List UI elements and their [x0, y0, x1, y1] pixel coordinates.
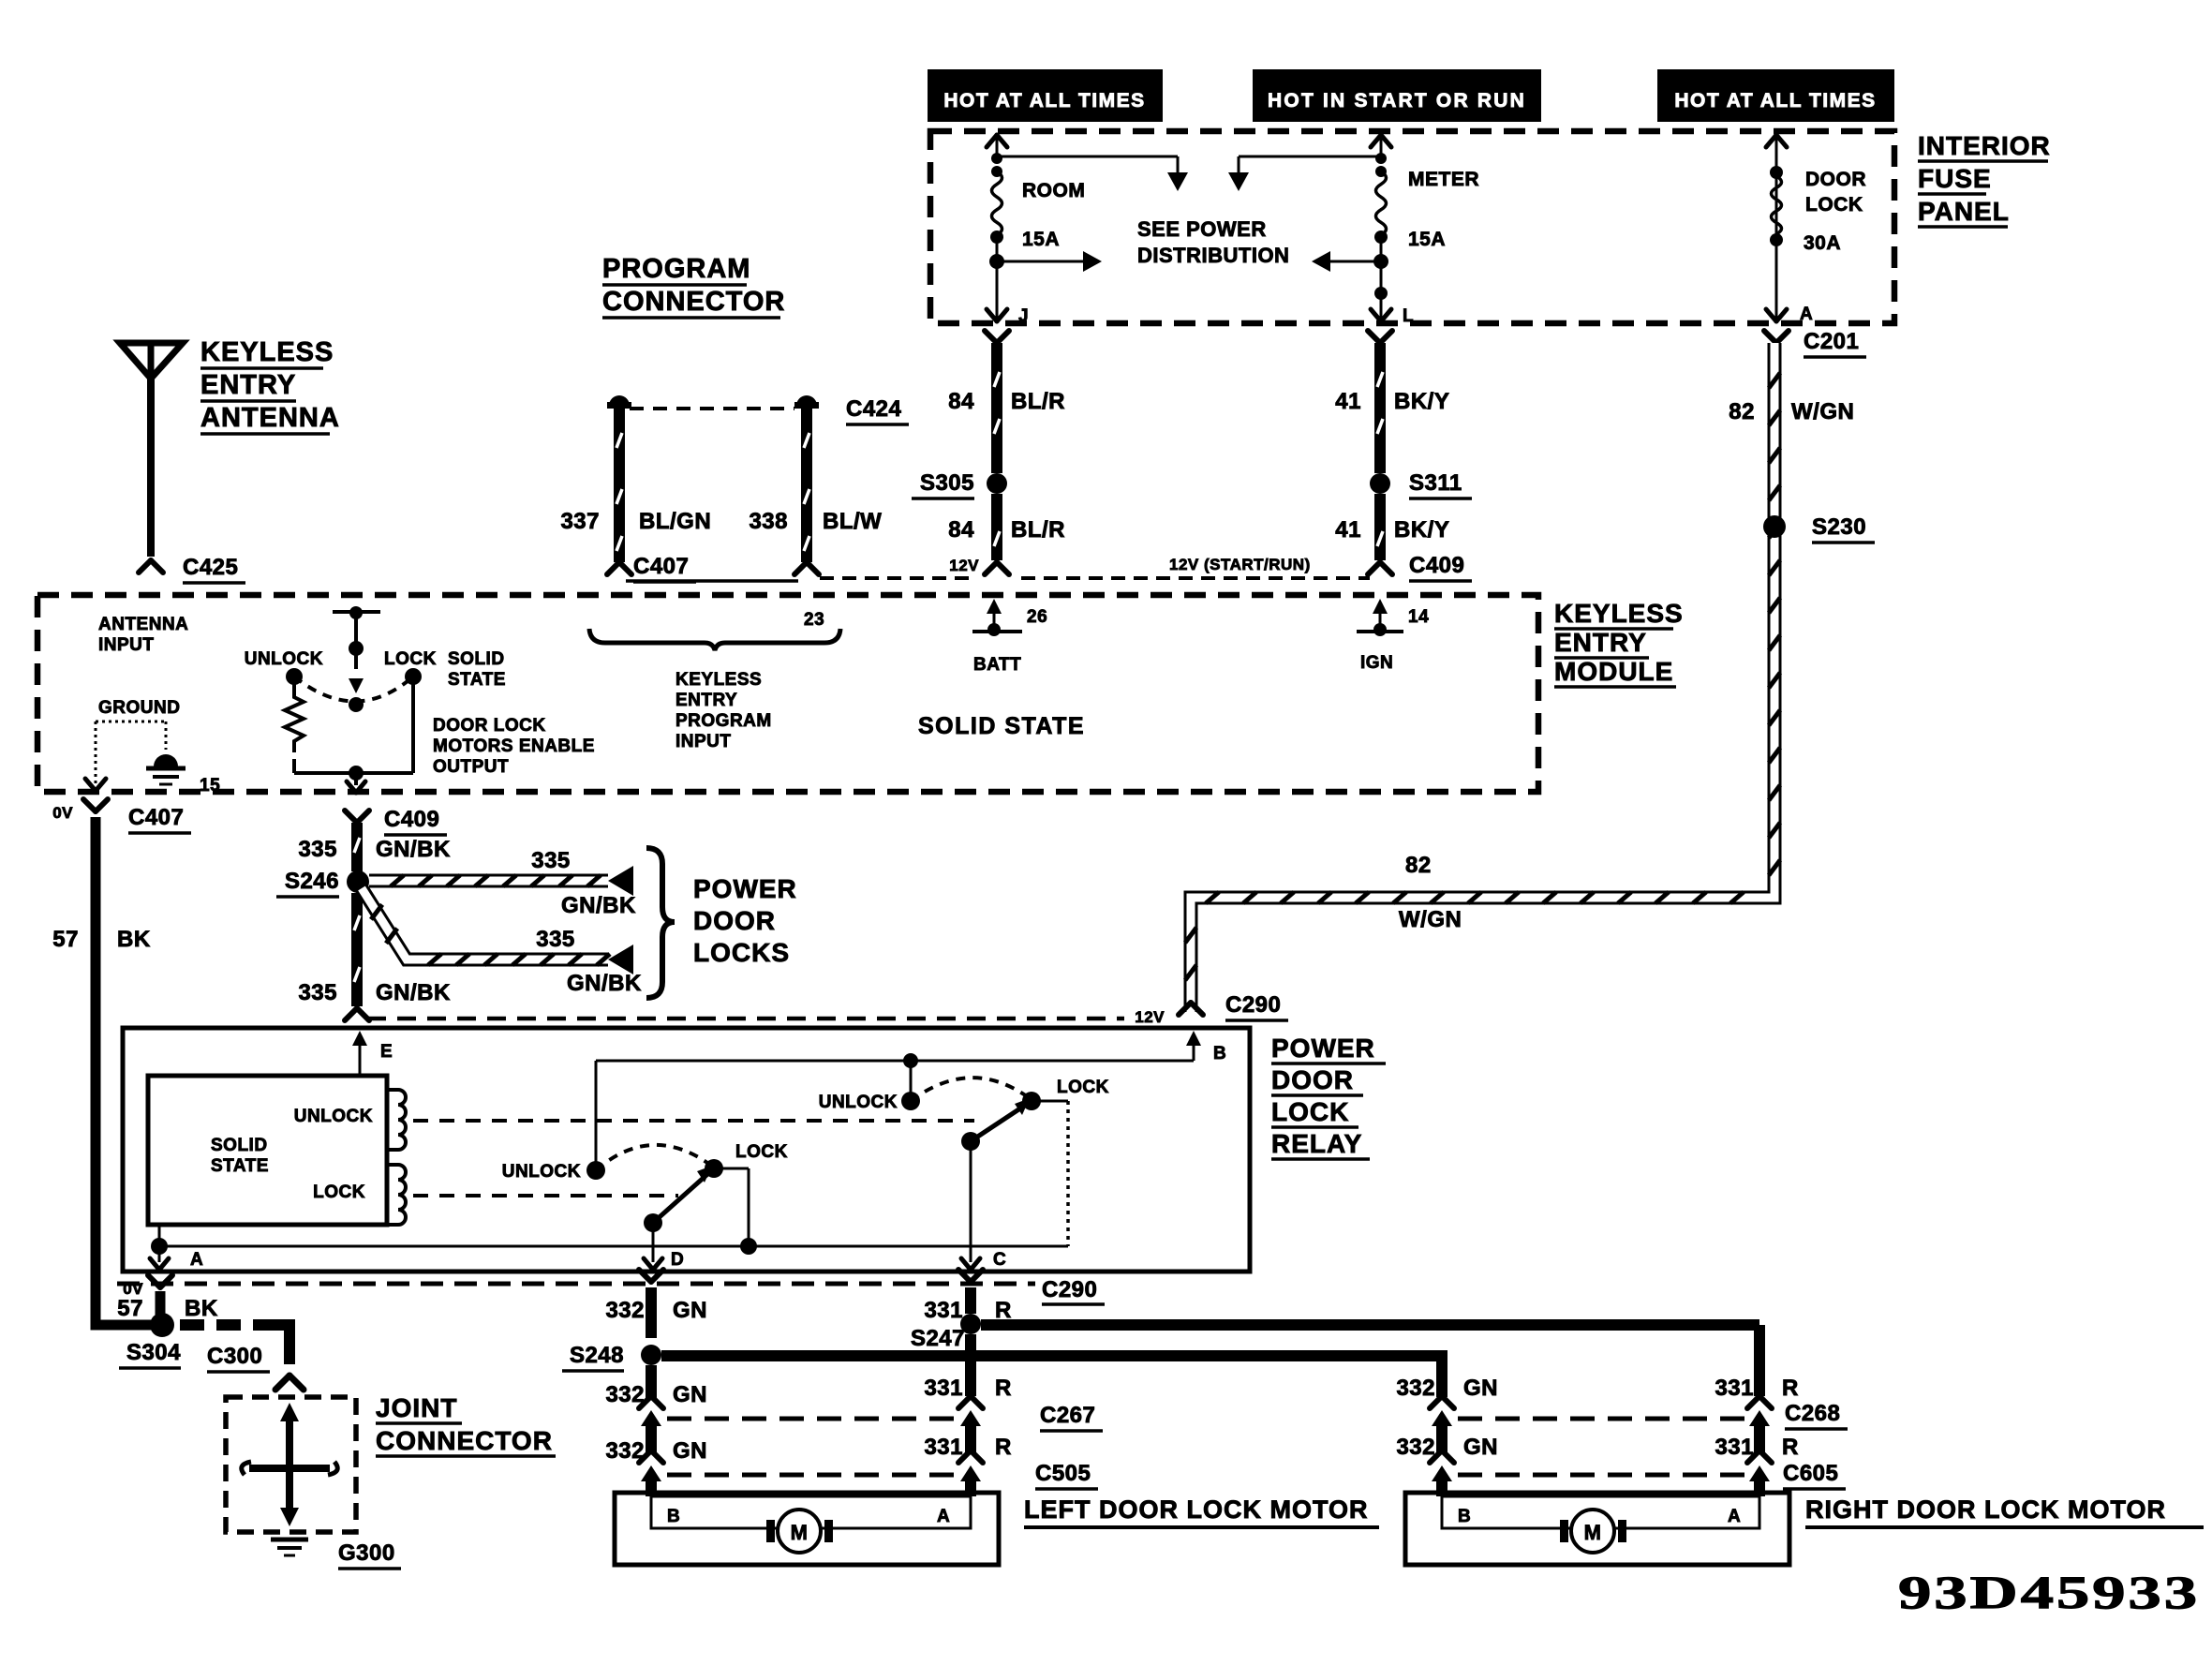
svg-text:331: 331 [924, 1298, 963, 1323]
svg-text:338: 338 [749, 509, 788, 534]
svg-text:332: 332 [1396, 1435, 1435, 1460]
svg-text:BATT: BATT [973, 655, 1021, 675]
svg-text:B: B [1458, 1507, 1471, 1526]
svg-text:UNLOCK: UNLOCK [294, 1107, 373, 1126]
svg-text:ANTENNA: ANTENNA [200, 403, 340, 433]
svg-text:UNLOCK: UNLOCK [245, 649, 323, 669]
svg-text:R: R [1782, 1376, 1799, 1401]
svg-text:CONNECTOR: CONNECTOR [376, 1426, 553, 1455]
svg-text:41: 41 [1335, 389, 1361, 414]
svg-text:PROGRAM: PROGRAM [602, 254, 750, 284]
svg-text:LOCK: LOCK [735, 1142, 788, 1162]
svg-text:DOOR: DOOR [1271, 1065, 1354, 1094]
svg-text:INTERIOR: INTERIOR [1918, 131, 2051, 160]
svg-text:SEE POWER: SEE POWER [1137, 217, 1267, 241]
svg-text:C290: C290 [1042, 1277, 1097, 1302]
svg-text:GN/BK: GN/BK [376, 980, 451, 1005]
svg-text:HOT AT ALL TIMES: HOT AT ALL TIMES [943, 90, 1145, 112]
svg-text:R: R [995, 1298, 1012, 1323]
svg-text:LEFT DOOR LOCK MOTOR: LEFT DOOR LOCK MOTOR [1024, 1495, 1368, 1524]
svg-text:331: 331 [1715, 1376, 1754, 1401]
svg-text:331: 331 [924, 1376, 963, 1401]
svg-text:BL/W: BL/W [823, 509, 882, 534]
svg-text:S247: S247 [911, 1326, 965, 1351]
svg-text:26: 26 [1027, 607, 1047, 627]
svg-text:L: L [1403, 306, 1414, 326]
svg-text:CONNECTOR: CONNECTOR [602, 287, 785, 317]
svg-text:ANTENNA: ANTENNA [98, 615, 188, 634]
svg-text:332: 332 [1396, 1376, 1435, 1401]
svg-text:GN: GN [1463, 1376, 1498, 1401]
svg-text:DOOR: DOOR [1805, 169, 1866, 190]
svg-text:R: R [1782, 1435, 1799, 1460]
svg-text:JOINT: JOINT [376, 1393, 457, 1422]
svg-text:LOCK: LOCK [1057, 1078, 1109, 1097]
svg-text:C505: C505 [1035, 1461, 1091, 1486]
svg-text:57: 57 [52, 927, 79, 952]
svg-text:84: 84 [948, 389, 974, 414]
svg-text:BK: BK [117, 927, 151, 952]
svg-text:G300: G300 [338, 1540, 395, 1566]
svg-text:332: 332 [605, 1438, 645, 1464]
svg-text:12V: 12V [949, 557, 979, 574]
svg-text:INPUT: INPUT [675, 732, 732, 751]
svg-text:PANEL: PANEL [1918, 197, 2010, 226]
svg-text:82: 82 [1729, 399, 1755, 424]
svg-text:332: 332 [605, 1298, 645, 1323]
svg-text:BL/GN: BL/GN [639, 509, 711, 534]
svg-text:A: A [1800, 305, 1813, 324]
svg-text:W/GN: W/GN [1791, 399, 1854, 424]
svg-text:331: 331 [924, 1435, 963, 1460]
svg-text:C290: C290 [1225, 992, 1281, 1018]
svg-text:DISTRIBUTION: DISTRIBUTION [1137, 244, 1289, 267]
svg-text:S311: S311 [1409, 470, 1462, 496]
svg-text:KEYLESS: KEYLESS [675, 670, 762, 690]
svg-text:30A: 30A [1804, 232, 1841, 254]
svg-text:R: R [995, 1435, 1012, 1460]
svg-text:C407: C407 [128, 805, 184, 830]
svg-text:41: 41 [1335, 517, 1361, 543]
svg-text:POWER: POWER [1271, 1034, 1375, 1063]
svg-text:335: 335 [536, 927, 575, 952]
svg-text:STATE: STATE [448, 670, 506, 690]
svg-text:M: M [791, 1521, 809, 1544]
svg-text:335: 335 [298, 980, 337, 1005]
svg-text:UNLOCK: UNLOCK [502, 1162, 581, 1182]
svg-text:BL/R: BL/R [1011, 517, 1065, 543]
svg-text:GN/BK: GN/BK [561, 893, 636, 918]
svg-text:RIGHT DOOR LOCK MOTOR: RIGHT DOOR LOCK MOTOR [1805, 1495, 2166, 1524]
svg-text:335: 335 [298, 837, 337, 862]
svg-text:S304: S304 [126, 1340, 181, 1365]
svg-text:LOCKS: LOCKS [693, 938, 790, 967]
svg-text:POWER: POWER [693, 874, 797, 903]
svg-text:GN: GN [673, 1382, 707, 1407]
svg-text:PROGRAM: PROGRAM [675, 711, 772, 731]
svg-text:HOT AT ALL TIMES: HOT AT ALL TIMES [1674, 90, 1876, 112]
svg-text:S248: S248 [570, 1343, 624, 1368]
svg-text:SOLID: SOLID [448, 649, 505, 669]
svg-text:FUSE: FUSE [1918, 164, 1992, 193]
svg-text:B: B [667, 1507, 680, 1526]
svg-text:S305: S305 [920, 470, 974, 496]
svg-text:IGN: IGN [1360, 653, 1393, 673]
svg-text:STATE: STATE [211, 1156, 269, 1176]
svg-text:KEYLESS: KEYLESS [1554, 599, 1684, 628]
svg-text:BK: BK [185, 1296, 218, 1321]
svg-text:C267: C267 [1040, 1403, 1095, 1428]
svg-text:C: C [993, 1250, 1006, 1270]
svg-text:LOCK: LOCK [1805, 194, 1863, 216]
svg-text:HOT IN START OR RUN: HOT IN START OR RUN [1268, 90, 1526, 112]
svg-text:C424: C424 [846, 396, 902, 422]
svg-text:332: 332 [605, 1382, 645, 1407]
svg-text:SOLID STATE: SOLID STATE [918, 713, 1085, 739]
svg-text:BL/R: BL/R [1011, 389, 1065, 414]
svg-text:S230: S230 [1812, 514, 1866, 540]
svg-text:15: 15 [200, 776, 220, 796]
svg-text:331: 331 [1715, 1435, 1754, 1460]
svg-text:ROOM: ROOM [1022, 180, 1085, 201]
svg-text:RELAY: RELAY [1271, 1129, 1362, 1158]
svg-text:LOCK: LOCK [313, 1183, 365, 1202]
svg-text:23: 23 [804, 610, 824, 630]
svg-text:BK/Y: BK/Y [1394, 517, 1449, 543]
svg-text:ENTRY: ENTRY [200, 370, 296, 400]
svg-text:A: A [190, 1250, 203, 1270]
svg-text:C407: C407 [633, 554, 689, 579]
svg-text:OUTPUT: OUTPUT [433, 757, 509, 777]
svg-text:C268: C268 [1785, 1401, 1840, 1426]
svg-text:93D45933: 93D45933 [1898, 1566, 2200, 1618]
svg-text:D: D [671, 1250, 684, 1270]
svg-text:DOOR LOCK: DOOR LOCK [433, 716, 546, 736]
svg-text:C425: C425 [183, 555, 238, 580]
svg-text:GROUND: GROUND [98, 698, 180, 718]
svg-text:82: 82 [1405, 853, 1432, 878]
svg-text:12V (START/RUN): 12V (START/RUN) [1169, 556, 1311, 573]
svg-text:ENTRY: ENTRY [1554, 628, 1647, 657]
svg-text:C300: C300 [207, 1344, 262, 1369]
svg-text:UNLOCK: UNLOCK [819, 1093, 898, 1112]
svg-text:MODULE: MODULE [1554, 657, 1673, 686]
svg-text:SOLID: SOLID [211, 1136, 268, 1155]
svg-text:A: A [1728, 1507, 1741, 1526]
svg-text:S246: S246 [285, 869, 339, 894]
svg-text:C605: C605 [1783, 1461, 1838, 1486]
svg-text:R: R [995, 1376, 1012, 1401]
svg-text:E: E [380, 1042, 393, 1062]
svg-text:GN: GN [673, 1438, 707, 1464]
svg-text:METER: METER [1408, 169, 1479, 190]
svg-text:W/GN: W/GN [1399, 907, 1462, 932]
svg-text:GN/BK: GN/BK [567, 971, 642, 996]
svg-text:15A: 15A [1408, 229, 1446, 250]
svg-text:57: 57 [117, 1296, 143, 1321]
svg-text:KEYLESS: KEYLESS [200, 337, 334, 367]
svg-text:J: J [1018, 306, 1029, 326]
svg-text:337: 337 [560, 509, 600, 534]
svg-text:GN: GN [673, 1298, 707, 1323]
svg-text:84: 84 [948, 517, 974, 543]
svg-text:ENTRY: ENTRY [675, 691, 737, 710]
svg-text:LOCK: LOCK [384, 649, 437, 669]
svg-text:GN: GN [1463, 1435, 1498, 1460]
svg-text:LOCK: LOCK [1271, 1097, 1349, 1126]
svg-text:B: B [1213, 1044, 1226, 1064]
svg-text:335: 335 [531, 848, 571, 873]
svg-text:MOTORS ENABLE: MOTORS ENABLE [433, 736, 595, 756]
svg-text:15A: 15A [1022, 229, 1060, 250]
svg-text:C201: C201 [1804, 329, 1859, 354]
svg-text:0V: 0V [52, 804, 73, 822]
svg-text:A: A [937, 1507, 950, 1526]
svg-text:GN/BK: GN/BK [376, 837, 451, 862]
svg-text:C409: C409 [1409, 553, 1464, 578]
svg-text:M: M [1584, 1521, 1602, 1544]
svg-text:C409: C409 [384, 807, 439, 832]
svg-text:DOOR: DOOR [693, 906, 776, 935]
svg-text:INPUT: INPUT [98, 635, 155, 655]
svg-text:BK/Y: BK/Y [1394, 389, 1449, 414]
svg-text:12V: 12V [1135, 1008, 1165, 1026]
svg-text:14: 14 [1408, 607, 1429, 627]
